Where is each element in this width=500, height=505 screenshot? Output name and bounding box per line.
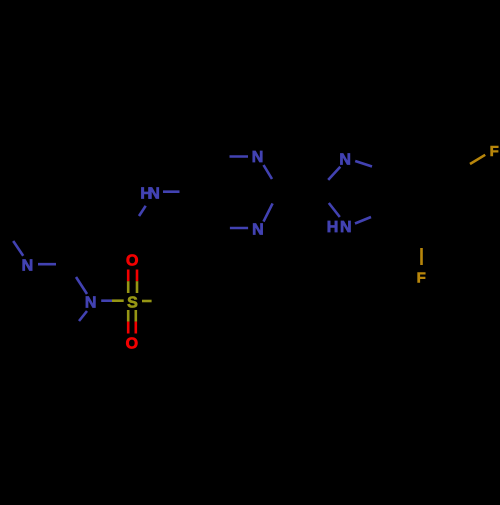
wire bbox=[355, 161, 372, 167]
svg-text:N: N bbox=[252, 149, 264, 166]
wire bbox=[136, 270, 139, 282]
wire bbox=[76, 277, 87, 294]
wire bbox=[127, 310, 130, 322]
svg-text:F: F bbox=[490, 143, 499, 160]
wire bbox=[139, 206, 146, 216]
svg-text:N: N bbox=[22, 258, 34, 275]
svg-text:N: N bbox=[85, 295, 97, 312]
wire bbox=[135, 310, 138, 322]
svg-text:N: N bbox=[339, 152, 351, 169]
wire bbox=[38, 263, 56, 266]
wire bbox=[79, 311, 87, 321]
wire bbox=[355, 217, 371, 224]
wire bbox=[112, 299, 124, 302]
wire bbox=[264, 165, 273, 179]
wire bbox=[127, 270, 130, 282]
svg-text:F: F bbox=[417, 269, 426, 286]
svg-text:S: S bbox=[127, 295, 138, 312]
wire bbox=[163, 190, 180, 193]
wire bbox=[328, 167, 340, 180]
svg-text:O: O bbox=[126, 335, 138, 352]
svg-text:H: H bbox=[327, 219, 339, 236]
svg-text:N: N bbox=[148, 185, 160, 202]
wire bbox=[420, 248, 423, 265]
svg-text:N: N bbox=[252, 222, 264, 239]
wire bbox=[230, 227, 248, 230]
wire bbox=[13, 241, 23, 256]
wire bbox=[101, 299, 112, 302]
wire bbox=[470, 155, 485, 164]
svg-text:N: N bbox=[340, 219, 352, 236]
svg-text:O: O bbox=[126, 253, 138, 270]
wire bbox=[230, 155, 249, 158]
wire bbox=[264, 203, 273, 221]
wire bbox=[142, 300, 152, 303]
wire bbox=[329, 203, 340, 217]
